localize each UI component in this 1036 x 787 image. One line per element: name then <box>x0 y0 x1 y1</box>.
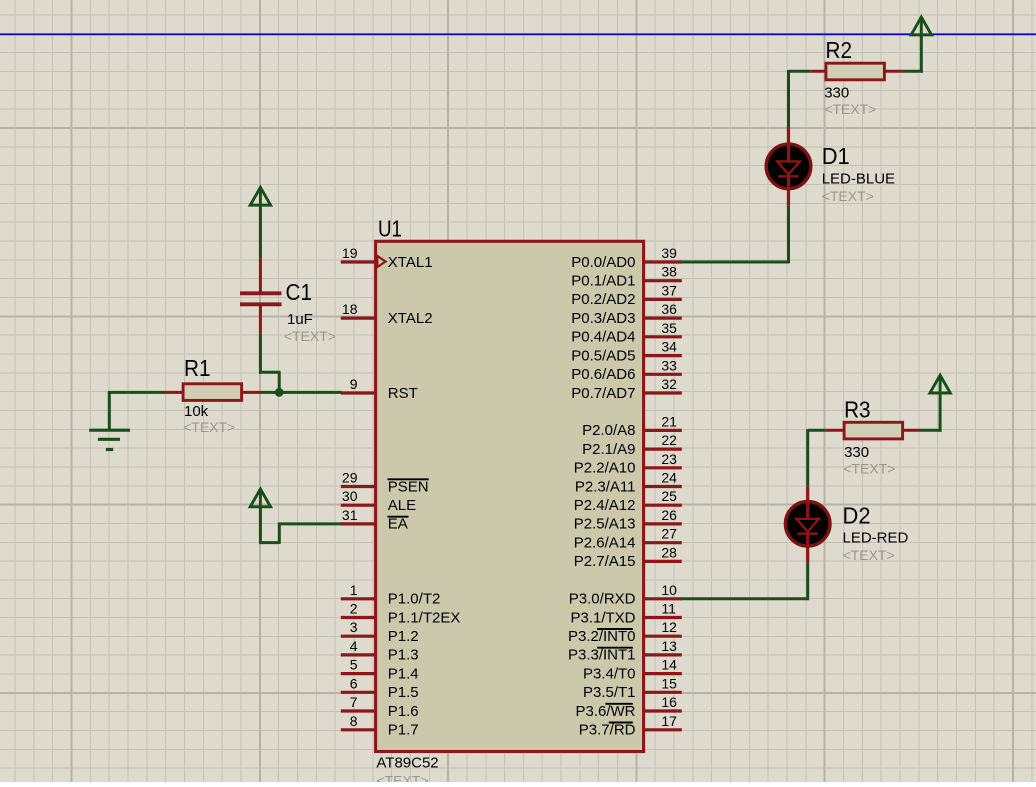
svg-text:330: 330 <box>844 444 869 461</box>
svg-text:P2.1/A9: P2.1/A9 <box>582 441 635 458</box>
pin 18 (XTAL2) stub <box>341 317 376 320</box>
R1 right lead <box>242 391 262 394</box>
svg-text:LED-BLUE: LED-BLUE <box>822 170 895 187</box>
wire power stem R2 <box>920 34 923 73</box>
LED D2 <box>785 502 830 547</box>
resistor R1 <box>183 384 242 401</box>
svg-text:4: 4 <box>350 638 358 654</box>
svg-text:XTAL2: XTAL2 <box>388 310 433 327</box>
svg-text:D1: D1 <box>822 143 850 169</box>
power terminal (top right) <box>911 17 931 35</box>
wire D2 vertical lower <box>806 564 809 601</box>
svg-text:P0.6/AD6: P0.6/AD6 <box>571 366 635 383</box>
pin 37 (P0.2/AD2) stub <box>644 298 682 301</box>
svg-text:U1: U1 <box>378 216 402 242</box>
sheet border (blue) <box>0 33 1036 35</box>
svg-text:P3.5/T1: P3.5/T1 <box>583 684 636 701</box>
svg-text:P1.3: P1.3 <box>388 647 419 664</box>
pin name overline row 25 <box>609 722 633 724</box>
wire R1 to RST pin <box>262 391 342 394</box>
svg-text:P1.7: P1.7 <box>388 722 419 739</box>
wire corner to R2 <box>789 70 811 73</box>
svg-text:P2.2/A10: P2.2/A10 <box>574 460 636 477</box>
pin 28 (P2.7/A15) stub <box>644 560 682 563</box>
wire D2 to R3 corner <box>806 429 809 487</box>
svg-text:P3.6/WR: P3.6/WR <box>575 703 635 720</box>
resistor R3 <box>844 422 903 439</box>
wire D1 vertical lower <box>787 206 790 264</box>
XTAL1 clock input arrow <box>377 256 385 267</box>
svg-text:P3.0/RXD: P3.0/RXD <box>569 591 636 608</box>
pin 15 (P3.5/T1) stub <box>644 691 682 694</box>
pin 17 (P3.7/RD) stub <box>644 728 682 731</box>
svg-text:P0.2/AD2: P0.2/AD2 <box>571 291 635 308</box>
svg-text:25: 25 <box>661 488 677 504</box>
power terminal (above C1) <box>250 187 270 205</box>
pin 1 (P1.0/T2) stub <box>341 597 376 600</box>
pin 23 (P2.2/A10) stub <box>644 466 682 469</box>
svg-text:29: 29 <box>342 470 358 486</box>
wire EA jog bottom <box>259 541 279 544</box>
pin name overline row 21 <box>597 647 633 649</box>
svg-text:R1: R1 <box>184 355 211 381</box>
svg-text:P2.6/A14: P2.6/A14 <box>574 534 636 551</box>
wire power stem R3 <box>939 392 942 432</box>
svg-text:36: 36 <box>661 301 677 317</box>
wire R2 to power <box>903 70 923 73</box>
svg-text:11: 11 <box>661 600 676 616</box>
pin 35 (P0.4/AD4) stub <box>644 335 682 338</box>
svg-text:27: 27 <box>661 526 677 542</box>
svg-text:33: 33 <box>661 357 677 373</box>
svg-text:12: 12 <box>661 619 677 635</box>
wire pin10 to D2 branch <box>681 597 808 600</box>
pin 10 (P3.0/RXD) stub <box>644 597 682 600</box>
pin 8 (P1.7) stub <box>341 728 376 731</box>
svg-text:P0.4/AD4: P0.4/AD4 <box>571 329 635 346</box>
svg-text:16: 16 <box>661 694 677 710</box>
pin 39 (P0.0/AD0) stub <box>644 260 682 263</box>
pin 5 (P1.4) stub <box>341 672 376 675</box>
svg-text:P3.2/INT0: P3.2/INT0 <box>568 628 636 645</box>
svg-text:35: 35 <box>661 320 677 336</box>
svg-text:1uF: 1uF <box>287 311 313 328</box>
svg-text:5: 5 <box>350 657 358 673</box>
pin 26 (P2.5/A13) stub <box>644 522 682 525</box>
resistor R2 <box>826 63 885 80</box>
pin 19 (XTAL1) stub <box>341 260 376 263</box>
svg-text:P0.7/AD7: P0.7/AD7 <box>571 385 635 402</box>
op-amp U1 body (AT89C52 MCU) <box>376 241 644 751</box>
svg-text:39: 39 <box>661 245 677 261</box>
wire EA power stem <box>259 506 262 543</box>
pin 25 (P2.4/A12) stub <box>644 504 682 507</box>
pin 13 (P3.3/INT1) stub <box>644 653 682 656</box>
R2 left lead <box>810 70 826 73</box>
svg-text:24: 24 <box>661 470 677 486</box>
LED D1 <box>766 144 811 189</box>
svg-text:17: 17 <box>661 713 677 729</box>
pin 4 (P1.3) stub <box>341 653 376 656</box>
svg-text:30: 30 <box>342 488 358 504</box>
svg-text:RST: RST <box>388 385 418 402</box>
wire junction up jog <box>278 372 281 392</box>
svg-text:R3: R3 <box>844 396 871 422</box>
R3 left lead <box>826 429 845 432</box>
svg-text:P3.1/TXD: P3.1/TXD <box>570 609 635 626</box>
pin 3 (P1.2) stub <box>341 635 376 638</box>
pin 31 (EA) stub <box>341 522 376 525</box>
pin 32 (P0.7/AD7) stub <box>644 391 682 394</box>
svg-text:D2: D2 <box>843 502 871 528</box>
wire D1 to R2 corner <box>787 70 790 127</box>
power terminal (EA) <box>250 489 270 507</box>
pin 14 (P3.4/T0) stub <box>644 672 682 675</box>
svg-text:3: 3 <box>350 619 358 635</box>
svg-text:P2.5/A13: P2.5/A13 <box>574 516 636 533</box>
pin 33 (P0.6/AD6) stub <box>644 373 682 376</box>
pin 16 (P3.6/WR) stub <box>644 709 682 712</box>
wire ground to R1 <box>108 391 165 394</box>
svg-text:7: 7 <box>350 694 358 710</box>
wire EA jog up <box>278 523 281 544</box>
svg-text:P0.0/AD0: P0.0/AD0 <box>571 254 635 271</box>
pin name overline row 20 <box>597 628 633 630</box>
svg-text:10k: 10k <box>184 403 209 420</box>
svg-text:<TEXT>: <TEXT> <box>843 547 895 563</box>
R2 right lead <box>884 70 903 73</box>
svg-text:13: 13 <box>661 638 677 654</box>
svg-text:R2: R2 <box>826 37 853 63</box>
svg-text:P1.5: P1.5 <box>388 684 419 701</box>
svg-text:38: 38 <box>661 264 677 280</box>
svg-text:8: 8 <box>350 713 358 729</box>
svg-text:32: 32 <box>661 376 677 392</box>
svg-text:EA: EA <box>388 516 408 533</box>
EA overline <box>388 516 409 518</box>
svg-text:ALE: ALE <box>388 497 416 514</box>
svg-text:1: 1 <box>350 582 358 598</box>
svg-text:<TEXT>: <TEXT> <box>843 460 895 476</box>
C1 bottom lead <box>259 304 262 334</box>
svg-text:330: 330 <box>824 85 849 102</box>
svg-text:XTAL1: XTAL1 <box>388 254 433 271</box>
svg-text:P3.7/RD: P3.7/RD <box>579 722 636 739</box>
svg-text:P1.6: P1.6 <box>388 703 419 720</box>
svg-text:P2.4/A12: P2.4/A12 <box>574 497 636 514</box>
svg-text:2: 2 <box>350 600 358 616</box>
capacitor C1 <box>240 291 282 295</box>
wire corner to R3 <box>808 429 826 432</box>
pin 12 (P3.2/INT0) stub <box>644 635 682 638</box>
pin 11 (P3.1/TXD) stub <box>644 616 682 619</box>
svg-text:15: 15 <box>661 675 677 691</box>
svg-text:<TEXT>: <TEXT> <box>284 328 336 344</box>
svg-text:P2.7/A15: P2.7/A15 <box>574 553 636 570</box>
svg-text:P1.1/T2EX: P1.1/T2EX <box>388 609 461 626</box>
svg-text:P0.3/AD3: P0.3/AD3 <box>571 310 635 327</box>
svg-text:LED-RED: LED-RED <box>843 530 909 547</box>
pin name overline row 24 <box>605 703 633 705</box>
pin 36 (P0.3/AD3) stub <box>644 317 682 320</box>
svg-text:19: 19 <box>342 245 358 261</box>
svg-text:18: 18 <box>342 301 358 317</box>
svg-text:C1: C1 <box>286 279 313 305</box>
svg-text:<TEXT>: <TEXT> <box>183 419 235 435</box>
svg-text:P0.5/AD5: P0.5/AD5 <box>571 347 635 364</box>
svg-text:34: 34 <box>661 339 677 355</box>
wire C1 to power <box>259 204 262 258</box>
wire pin39 to D1 branch <box>681 261 789 264</box>
pin 6 (P1.5) stub <box>341 691 376 694</box>
wire jog to C1 bottom <box>259 334 262 374</box>
pin 2 (P1.1/T2EX) stub <box>341 616 376 619</box>
pin 21 (P2.0/A8) stub <box>644 429 682 432</box>
pin 34 (P0.5/AD5) stub <box>644 354 682 357</box>
svg-text:PSEN: PSEN <box>388 478 429 495</box>
svg-text:23: 23 <box>661 451 677 467</box>
pin 38 (P0.1/AD1) stub <box>644 279 682 282</box>
R3 right lead <box>903 429 921 432</box>
power terminal (right, above R3) <box>930 375 950 393</box>
svg-text:AT89C52: AT89C52 <box>376 754 438 771</box>
pin 9 (RST) stub <box>341 391 376 394</box>
svg-text:P1.4: P1.4 <box>388 665 419 682</box>
svg-text:P3.3/INT1: P3.3/INT1 <box>568 647 636 664</box>
D2 top lead <box>806 487 809 503</box>
PSEN overline <box>388 478 429 480</box>
pin 22 (P2.1/A9) stub <box>644 448 682 451</box>
D2 bottom lead <box>806 545 809 564</box>
pin 30 (ALE) stub <box>341 504 376 507</box>
svg-text:<TEXT>: <TEXT> <box>376 773 428 783</box>
svg-text:P1.0/T2: P1.0/T2 <box>388 591 441 608</box>
R1 left lead <box>164 391 183 394</box>
svg-text:26: 26 <box>661 507 677 523</box>
svg-text:<TEXT>: <TEXT> <box>824 101 876 117</box>
wire R3 to power <box>921 429 942 432</box>
svg-text:P0.1/AD1: P0.1/AD1 <box>571 273 635 290</box>
svg-text:P2.0/A8: P2.0/A8 <box>582 422 635 439</box>
svg-text:28: 28 <box>661 544 677 560</box>
D1 bottom lead <box>787 188 790 206</box>
pin 27 (P2.6/A14) stub <box>644 541 682 544</box>
ground symbol <box>108 392 111 429</box>
wire EA to pin31 <box>278 522 342 525</box>
svg-text:21: 21 <box>661 413 677 429</box>
svg-text:37: 37 <box>661 282 677 298</box>
C1 top lead <box>259 258 262 291</box>
svg-text:10: 10 <box>661 582 677 598</box>
svg-text:P2.3/A11: P2.3/A11 <box>575 478 636 495</box>
svg-text:22: 22 <box>661 432 677 448</box>
pin 29 (PSEN) stub <box>341 485 376 488</box>
svg-text:P1.2: P1.2 <box>388 628 419 645</box>
svg-text:P3.4/T0: P3.4/T0 <box>583 665 636 682</box>
pin 24 (P2.3/A11) stub <box>644 485 682 488</box>
svg-text:6: 6 <box>350 675 358 691</box>
svg-text:<TEXT>: <TEXT> <box>822 188 874 204</box>
junction node (RST/C1) <box>275 388 284 397</box>
svg-text:9: 9 <box>350 376 358 392</box>
svg-text:14: 14 <box>661 657 677 673</box>
D1 top lead <box>787 127 790 146</box>
pin 7 (P1.6) stub <box>341 709 376 712</box>
svg-text:31: 31 <box>342 507 358 523</box>
